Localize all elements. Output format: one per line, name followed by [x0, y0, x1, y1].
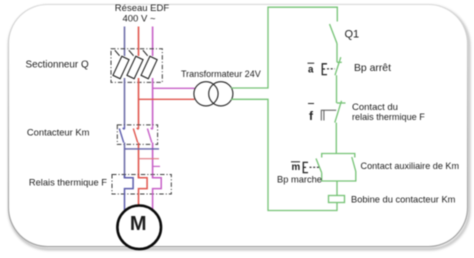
wire f to m node: [335, 123, 337, 154]
contact f blade (NC): [335, 101, 342, 123]
wire phase L1 top: [124, 27, 126, 57]
coil KM rectangle: [329, 196, 345, 203]
terminal stub L2: [139, 158, 160, 160]
push-button m blade (NO, Bp marche): [316, 159, 322, 173]
auxiliary contact Km blade (NO): [352, 157, 356, 172]
svg-text:Contact auxiliaire de Km: Contact auxiliaire de Km: [361, 161, 460, 171]
thermal element F pole 1: [125, 175, 134, 212]
svg-text:Contacteur Km: Contacteur Km: [27, 127, 90, 138]
wire Q1 to Bp arret: [336, 44, 338, 63]
button a dashed link: [327, 68, 335, 70]
terminal stub L3: [153, 165, 160, 167]
transformer T1 primary winding: [194, 82, 218, 106]
button a label with overbar: [308, 62, 315, 64]
thermal element F pole 2: [139, 175, 148, 206]
wire phase L3 top: [152, 27, 154, 57]
wire L3 tap to transformer: [153, 87, 195, 89]
wire m node to coil: [336, 181, 338, 196]
contact f seat: [337, 102, 346, 104]
button m label with overbar: [291, 161, 300, 163]
svg-text:Transformateur 24V: Transformateur 24V: [181, 69, 261, 79]
svg-text:Q1: Q1: [345, 29, 360, 41]
thermal element F pole 3: [153, 175, 162, 210]
contactor Km enclosure (dash-dot box): [117, 125, 157, 144]
svg-text:400 V ~: 400 V ~: [122, 14, 155, 25]
motor M circle: [117, 206, 161, 250]
button m dashed link: [310, 166, 321, 168]
svg-text:Réseau EDF: Réseau EDF: [115, 3, 170, 14]
svg-text:relais thermique F: relais thermique F: [352, 112, 425, 122]
fuse-switch Q pole 1: [113, 50, 129, 79]
svg-text:M: M: [130, 213, 147, 235]
wire L2 below Km: [138, 143, 140, 178]
svg-text:Bp marche: Bp marche: [277, 174, 322, 184]
svg-text:m: m: [292, 162, 301, 173]
push-button a blade (NC): [335, 57, 341, 75]
push-button a seat: [337, 61, 342, 63]
svg-text:Bp arrêt: Bp arrêt: [354, 63, 391, 74]
wire coil to bottom rail: [231, 99, 337, 210]
fuse-switch Q pole 3: [141, 50, 157, 79]
sectionneur Q enclosure (dash-dot box): [111, 49, 162, 83]
contact f label with overbar: [308, 103, 314, 105]
fuse-switch Q pole 2: [127, 50, 143, 79]
switch Q1 blade: [330, 24, 338, 44]
wire L1 below Km: [124, 143, 126, 178]
contactor Km pole 3: [147, 125, 152, 143]
wire L2 below Q: [138, 78, 140, 125]
wire a to f: [336, 75, 338, 103]
wire L1 below Q: [124, 78, 126, 125]
button a actuator symbol: [322, 64, 327, 75]
contactor Km pole 2: [133, 125, 138, 143]
node top bar of parallel contacts: [322, 154, 355, 158]
svg-text:Relais thermique F: Relais thermique F: [29, 178, 107, 188]
thermal trip link: [321, 110, 336, 120]
wire secondary top rail: [231, 7, 337, 88]
wire phase L2 top: [138, 27, 140, 57]
contactor Km pole 1: [119, 125, 124, 143]
wire L3 below Q: [152, 78, 154, 125]
svg-text:a: a: [308, 65, 314, 76]
svg-text:Sectionneur Q: Sectionneur Q: [26, 60, 89, 71]
control circuit: green wiring: [231, 7, 356, 210]
transformer T1 secondary winding: [209, 82, 233, 106]
terminal stub L1: [125, 148, 160, 150]
node bottom bar of parallel contacts: [322, 172, 356, 182]
svg-text:Bobine du contacteur Km: Bobine du contacteur Km: [351, 195, 456, 205]
thermal relay F enclosure (dash-dot box): [112, 175, 171, 195]
wire L2 tap to transformer: [139, 98, 195, 100]
button m actuator symbol: [303, 162, 308, 172]
wire L3 below Km: [152, 143, 154, 178]
